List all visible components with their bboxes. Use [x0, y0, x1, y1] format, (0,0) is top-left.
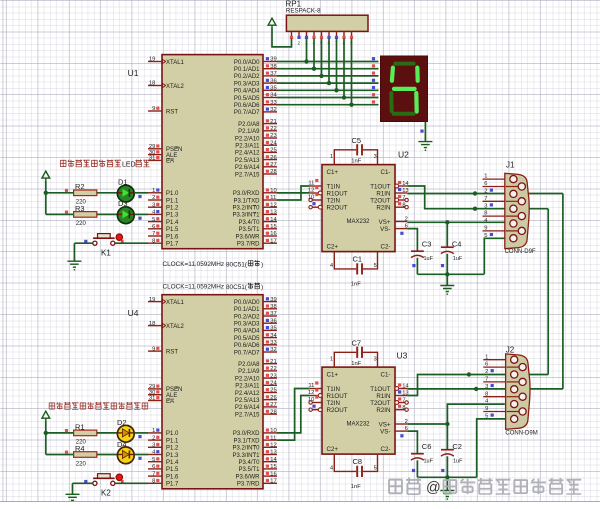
display segment A (off) — [395, 62, 413, 66]
wire U3 VS+ to C2 junction — [407, 423, 447, 425]
junction J2 pin2 — [467, 372, 471, 376]
svg-text:CONN-D9M: CONN-D9M — [505, 431, 537, 437]
display common pin state square — [420, 130, 423, 133]
svg-text:8: 8 — [484, 211, 487, 217]
capacitor C3 — [411, 251, 424, 257]
wire K2 to ground — [73, 483, 93, 494]
display segment F (on) — [392, 68, 393, 81]
wire U3 VS- to C6 — [407, 431, 417, 454]
C2 bottom pin state square — [441, 469, 444, 472]
svg-text:1uF: 1uF — [424, 459, 434, 465]
svg-text:1: 1 — [484, 174, 487, 180]
wire rail to J1 pin5 — [484, 238, 505, 274]
LED D4 — [117, 447, 134, 464]
svg-text:220: 220 — [76, 221, 87, 227]
R1 pin state square — [65, 429, 68, 432]
wire to R2 — [46, 192, 74, 194]
80C51 MCU U1 — [148, 55, 278, 249]
wire R2 to D1 — [97, 192, 118, 194]
svg-text:3: 3 — [484, 203, 487, 209]
svg-text:220: 220 — [76, 461, 87, 467]
D2 pin state square — [138, 435, 141, 438]
J1 unconnected pin stubs — [483, 178, 505, 180]
junction J1 pin2 — [473, 191, 477, 195]
wire U2 T1OUT to J1 pin3 and down-link — [407, 186, 548, 209]
wire R4 to D4 — [97, 454, 118, 456]
resistor R1 — [74, 430, 97, 436]
7-segment display body — [381, 56, 428, 122]
capacitor C2 branch — [446, 424, 448, 450]
LED D1 — [117, 185, 134, 202]
ground below K1 — [67, 261, 81, 270]
wire RP1 pin5 to P0.2 net — [321, 39, 323, 76]
junction power/R2 — [44, 191, 48, 195]
resistor R4 — [74, 452, 97, 458]
svg-text:C6: C6 — [422, 442, 432, 451]
junction rail/ground bottom — [445, 475, 449, 479]
svg-text:U2: U2 — [398, 150, 409, 160]
U3 VS- pin state square — [400, 434, 403, 437]
80C51 MCU U4 — [148, 295, 278, 489]
wire R1 to D2 — [97, 432, 118, 434]
connector J2 CONN-D9M — [506, 354, 530, 429]
C6 bottom pin state square — [412, 469, 415, 472]
junction J2 pin3 — [474, 387, 478, 391]
svg-text:4: 4 — [484, 218, 488, 224]
svg-text:@: @ — [426, 480, 441, 496]
resistor R2 — [74, 190, 97, 196]
svg-text:3: 3 — [485, 384, 488, 390]
svg-text:U3: U3 — [397, 350, 408, 360]
wire U1 TXD to U2 T1IN — [277, 186, 310, 200]
wire U1 RXD to U2 R1OUT — [277, 192, 310, 194]
RP1 pins — [291, 31, 293, 38]
svg-text:2: 2 — [484, 189, 487, 195]
wire U2 VS+ to J1 pin4 — [407, 221, 505, 223]
svg-text:5: 5 — [485, 414, 488, 420]
svg-text:CLOCK=11.0592MHz: CLOCK=11.0592MHz — [163, 284, 225, 291]
svg-text:8: 8 — [485, 391, 488, 397]
junction rail/ground — [445, 272, 449, 276]
VS- pin state square — [400, 232, 403, 235]
resistor R3 — [74, 212, 97, 218]
junction RP1-5/P0.2 — [319, 74, 323, 78]
wire power rail vertical — [45, 180, 47, 214]
wire U2 VS- to C3 — [407, 229, 417, 252]
wire D4 to P1.3 — [134, 454, 148, 456]
svg-text:U1: U1 — [128, 68, 139, 78]
svg-text:C2: C2 — [452, 442, 462, 451]
wire to R4 — [46, 454, 74, 456]
wire C2 to gnd rail — [446, 456, 448, 477]
connector J1 CONN-D9F — [505, 173, 529, 248]
resistor pack RP1 body — [286, 15, 368, 31]
wire power rail vertical bottom — [45, 420, 47, 454]
wire RP1 pin3 to P0.0 net — [306, 39, 308, 62]
svg-text:J1: J1 — [506, 161, 515, 170]
R2 pin state square — [65, 189, 68, 192]
junction VS+/C2 — [445, 422, 449, 426]
display segment D (off) — [394, 112, 414, 116]
junction VS+/C4 — [445, 220, 449, 224]
svg-text:1: 1 — [485, 354, 488, 360]
junction RP1-8/P0.5 — [342, 95, 346, 99]
display segment C (on) — [414, 93, 419, 112]
svg-text:R1: R1 — [75, 422, 85, 431]
svg-text:CONN-D9F: CONN-D9F — [505, 249, 536, 255]
wire K1 to P1.7 — [115, 242, 148, 244]
junction RP1-3/P0.0 — [304, 59, 308, 63]
svg-text:U4: U4 — [128, 308, 139, 318]
J2 pin state squares — [491, 369, 494, 372]
wire C6 to gnd rail — [416, 460, 418, 477]
wire RP1 pin8 to P0.5 net — [343, 39, 345, 98]
capacitor C4 branch — [446, 222, 448, 247]
wire to R3 — [46, 213, 74, 215]
J1 pin state squares — [490, 189, 493, 192]
ground rail bottom section — [417, 476, 476, 478]
wire RP1 pin6 to P0.3 net — [328, 39, 330, 84]
C3 bottom pin state square — [412, 264, 415, 267]
svg-text:RESPACK-8: RESPACK-8 — [286, 7, 321, 14]
wire D1 to P1.0 — [134, 192, 148, 194]
J2 unconnected pin stubs — [483, 359, 505, 361]
wire RP1 pin4 to P0.1 net — [313, 39, 315, 69]
wire U2 R1IN to J1 pin2 and down-link — [407, 193, 563, 195]
svg-text:C7: C7 — [352, 338, 362, 347]
svg-text:): ) — [261, 262, 263, 269]
wire R3 to D3 — [97, 213, 118, 215]
MAX232 U3 — [308, 347, 409, 490]
power symbol bottom-left — [42, 411, 50, 420]
svg-text:R3: R3 — [75, 204, 85, 213]
display segment G (on) — [394, 87, 415, 91]
svg-text:2: 2 — [298, 41, 301, 46]
svg-text:7: 7 — [484, 196, 487, 202]
wire VS+ up to J2 pin4 — [447, 404, 504, 424]
RP1 pin state squares — [290, 36, 293, 39]
capacitor C2 — [441, 450, 454, 456]
svg-text:1uF: 1uF — [424, 256, 434, 262]
svg-text:1uF: 1uF — [453, 256, 463, 262]
capacitor C4 — [441, 247, 454, 253]
LED D2 — [117, 425, 134, 442]
svg-text:K1: K1 — [101, 248, 111, 257]
svg-text:5: 5 — [484, 233, 487, 239]
svg-text:LED: LED — [122, 162, 136, 169]
wire D2 to P1.0 — [134, 432, 148, 434]
junction RP1-6/P0.3 — [327, 81, 331, 85]
MAX232 U2 — [308, 144, 409, 287]
wire U3 R1IN jog to J2 pin2 — [407, 375, 548, 396]
power symbol top-left — [42, 171, 50, 180]
D1 pin state square — [138, 195, 141, 198]
ground rail top section — [417, 273, 484, 275]
junction J1 pin3 — [473, 207, 477, 211]
wire RP1 pin7 to P0.4 net — [336, 39, 338, 91]
wire inner vertical J1.3 to J2.2 — [547, 209, 549, 375]
svg-text:9: 9 — [484, 226, 487, 232]
C4 bottom pin state square — [441, 264, 444, 267]
D3 pin state square — [138, 217, 141, 220]
svg-text:80C51(: 80C51( — [226, 262, 248, 269]
K2 pin state square — [84, 480, 87, 483]
svg-text:J2: J2 — [506, 345, 515, 354]
svg-text:6: 6 — [484, 181, 487, 187]
K1 pin state square — [84, 240, 87, 243]
wire outer vertical J1.2 to J2.3 — [562, 194, 564, 389]
svg-text:C8: C8 — [353, 457, 363, 466]
wire K2 to P1.7 — [115, 482, 148, 484]
wire U3 T1OUT to J2 pin3 — [407, 388, 563, 390]
ground below K2 — [66, 494, 80, 503]
svg-text:7: 7 — [485, 377, 488, 383]
ground below display — [418, 142, 432, 151]
capacitor C6 — [411, 454, 424, 460]
ground symbol bottom rail — [446, 477, 448, 490]
svg-text:R4: R4 — [75, 444, 85, 453]
wire K1 to ground — [74, 243, 92, 261]
watermark zhihu embedded engineer — [389, 478, 581, 497]
wire C3 to gnd rail — [416, 258, 418, 275]
junction RP1-7/P0.4 — [334, 88, 338, 92]
wire to R1 — [46, 432, 74, 434]
svg-text:CLOCK=11.0592MHz: CLOCK=11.0592MHz — [163, 261, 225, 268]
wire display common to ground — [424, 122, 426, 142]
wire RP1 pin9 to P0.6 net — [351, 39, 353, 105]
svg-text:R2: R2 — [75, 182, 85, 191]
svg-text:): ) — [261, 284, 263, 291]
wire rail to J2 pin5 — [477, 419, 506, 477]
svg-text:C4: C4 — [452, 240, 462, 249]
svg-text:1uF: 1uF — [453, 459, 463, 465]
bottom red annotation text yiji button controls jiaji 7-seg — [49, 403, 55, 409]
svg-text:9: 9 — [485, 406, 488, 412]
svg-text:2: 2 — [485, 369, 488, 375]
wire U4 TXD to U3 T1IN — [277, 389, 310, 441]
display segment B (on) — [415, 68, 420, 81]
button K1 — [93, 234, 124, 246]
display input pin state squares — [372, 57, 375, 60]
button K2 — [93, 474, 124, 486]
R3 pin state square — [65, 211, 68, 214]
R4 pin state square — [65, 451, 68, 454]
wire RP1 pin1 to power — [272, 27, 292, 47]
svg-text:6: 6 — [485, 362, 488, 368]
svg-text:K2: K2 — [101, 489, 111, 498]
wire U4 RXD to U3 R1OUT — [277, 396, 310, 433]
svg-text:80C51(: 80C51( — [226, 284, 248, 291]
wire C4 to gnd rail — [446, 254, 448, 274]
junction power/R1 — [44, 431, 48, 435]
svg-text:C3: C3 — [422, 240, 432, 249]
wire D3 to P1.3 — [134, 213, 148, 215]
svg-text:C1: C1 — [353, 254, 363, 263]
svg-text:C5: C5 — [352, 136, 362, 145]
LED D3 — [117, 207, 134, 224]
D4 pin state square — [138, 457, 141, 460]
junction RP1-9/P0.6 — [349, 103, 353, 107]
wires U1 P0.0-P0.6 to display — [277, 61, 379, 63]
display segment E (off) — [389, 93, 393, 111]
junction RP1-4/P0.1 — [312, 67, 316, 71]
power symbol for RP1 common — [268, 18, 276, 27]
ground symbol top rail — [446, 274, 448, 285]
top red annotation text jiaji button controls yiji LED — [60, 160, 66, 166]
